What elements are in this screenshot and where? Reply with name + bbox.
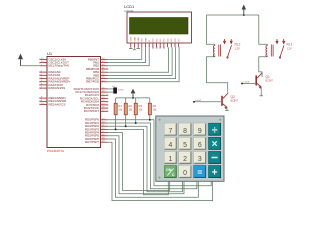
svg-text:VDD: VDD [134, 36, 136, 41]
wire 12V rail [207, 14, 259, 16]
svg-text:×: × [212, 139, 218, 150]
svg-text:7: 7 [168, 128, 172, 135]
svg-text:C: C [172, 173, 175, 177]
svg-text:Load2: Load2 [195, 100, 202, 102]
node pull-up rail junction [132, 97, 134, 99]
ground Q1 emitter [259, 95, 263, 97]
svg-text:RL2: RL2 [235, 43, 241, 47]
LCD pin names (vertical) [131, 36, 181, 41]
power symbol VCC (MCLR pull-up) [18, 54, 23, 66]
svg-text:4: 4 [168, 142, 172, 149]
wire pull-up bus [116, 97, 150, 99]
svg-text:VEE: VEE [138, 37, 140, 42]
crystal X1 [112, 86, 124, 93]
svg-text:0: 0 [183, 170, 187, 177]
wire RB4 to LCD D4 [108, 47, 169, 72]
key 9 [194, 123, 206, 135]
svg-text:6: 6 [198, 142, 202, 149]
resistor R4 [148, 98, 157, 120]
svg-text:+: + [212, 167, 218, 178]
U1 left pin stubs [40, 59, 47, 104]
svg-text:RD7/PSP7: RD7/PSP7 [85, 140, 99, 144]
svg-text:=: = [197, 167, 202, 177]
wire rail to RL1 coil top [259, 15, 268, 44]
svg-text:BC547: BC547 [231, 100, 239, 103]
resistor R1 [114, 98, 123, 129]
key 0 [179, 166, 191, 178]
key 5 [179, 137, 191, 149]
svg-text:U1: U1 [47, 51, 53, 56]
svg-text:R2: R2 [129, 104, 133, 108]
key multiply [209, 137, 221, 150]
svg-text:1: 1 [168, 156, 172, 163]
svg-text:3: 3 [198, 156, 202, 163]
wire RB0 to LCD RS [108, 47, 142, 59]
wire RL2 coil to Q2 collector [207, 57, 228, 92]
wire RD0 keypad column 1 [108, 120, 212, 186]
relay RL1 [266, 39, 285, 58]
microcontroller U1 PIC16F877A [47, 51, 101, 153]
U1 right unconnected pin crosses [107, 68, 108, 112]
svg-text:10k: 10k [118, 109, 123, 112]
key 6 [194, 137, 206, 149]
LCD unconnected data pin crosses D0-D3 [152, 47, 164, 48]
relay RL2 [213, 39, 232, 58]
svg-text:9: 9 [198, 128, 202, 135]
svg-text:R4: R4 [153, 104, 157, 108]
keypad bezel [156, 116, 224, 181]
wire Q2 base terminal [194, 101, 222, 103]
wire RD3 keypad column 4 [108, 129, 169, 194]
key equals [194, 166, 206, 178]
U1 right pin numbers [102, 58, 105, 143]
svg-text:12V: 12V [287, 47, 292, 51]
wire RD4 keypad row 1 [108, 133, 170, 191]
ground Q2 emitter [225, 110, 229, 112]
key ON/C [164, 166, 176, 178]
ground VSS [129, 47, 133, 48]
svg-text:R3: R3 [139, 104, 143, 108]
svg-text:R1: R1 [118, 104, 122, 108]
svg-text:10k: 10k [139, 109, 144, 112]
wire RD5 keypad row 2 [108, 136, 185, 194]
svg-text:RB7/PGD: RB7/PGD [86, 80, 99, 84]
LCD pin stubs [131, 43, 179, 47]
svg-text:RL1: RL1 [287, 43, 293, 47]
transistor Q1 BC547 [256, 73, 262, 96]
resistor R2 [124, 98, 133, 126]
LCD LCD1 LM016L [124, 4, 192, 43]
svg-text:÷: ÷ [212, 125, 218, 136]
wire RC0 to crystal [108, 88, 114, 90]
U1 left unconnected pin crosses [39, 59, 40, 106]
svg-text:Q1: Q1 [266, 75, 270, 79]
wire RB5 to LCD D5 [108, 47, 173, 75]
U1 right pin names [74, 57, 100, 144]
wire RL1 coil to Q1 collector [259, 57, 268, 77]
U1 right pin stubs [101, 59, 108, 142]
key 4 [164, 137, 176, 149]
svg-text:RS: RS [142, 38, 144, 42]
wire RB6 to LCD D6 [108, 47, 176, 78]
ground VEE [136, 47, 140, 48]
key 3 [194, 151, 206, 163]
key divide [209, 123, 221, 136]
wire MCLR pin to VCC arrow [21, 65, 41, 67]
key plus [209, 166, 221, 179]
svg-text:2: 2 [183, 156, 187, 163]
wire RD6 keypad row 3 [108, 139, 199, 197]
U1 left pin names [49, 57, 72, 106]
wire RB2 to LCD E [108, 47, 150, 66]
U1 left pin numbers [41, 58, 44, 105]
svg-text:RA5/AN4/SS: RA5/AN4/SS [49, 86, 66, 90]
wire Q1 base terminal [242, 83, 256, 85]
svg-text:Q2: Q2 [231, 95, 235, 99]
svg-text:RC7/RX/DT: RC7/RX/DT [84, 109, 99, 113]
svg-text:10k: 10k [129, 109, 134, 112]
svg-text:10k: 10k [153, 109, 158, 112]
key 7 [164, 123, 176, 135]
wire rail to RL2 coil top [207, 15, 215, 44]
power symbol 12V rail [242, 5, 247, 16]
key 8 [179, 123, 191, 135]
wire RD1 keypad column 2 [108, 123, 197, 189]
wire RD2 keypad column 3 [108, 126, 183, 192]
key 2 [179, 151, 191, 163]
node R4/RD0 junction [149, 119, 151, 121]
svg-text:5: 5 [183, 142, 187, 149]
svg-text:VSS: VSS [131, 37, 133, 42]
svg-text:8: 8 [183, 128, 187, 135]
svg-text:MCLR/Vpp/THV: MCLR/Vpp/THV [49, 64, 70, 68]
transistor Q2 BC547 [222, 92, 228, 111]
wire RB7 to LCD D7 [108, 47, 180, 82]
key minus [209, 151, 221, 163]
svg-text:PIC16F877A: PIC16F877A [47, 149, 64, 153]
node R3/RD1 junction [135, 122, 137, 124]
power symbol (keypad pull-up rail) [131, 89, 136, 98]
node R2/RD2 junction [125, 125, 127, 127]
svg-text:32kHz: 32kHz [118, 90, 124, 92]
svg-text:Load1: Load1 [244, 82, 251, 84]
wire RD7 keypad row 4 [108, 142, 213, 200]
resistor R3 [134, 98, 143, 123]
svg-text:BC547: BC547 [266, 80, 274, 83]
wire RB1 to LCD RW [108, 47, 146, 62]
node R1/RD3 junction [115, 128, 117, 130]
svg-text:RE2/AN7/CS: RE2/AN7/CS [49, 102, 66, 106]
wire RC1 to crystal [108, 91, 114, 93]
key 1 [164, 151, 176, 163]
power VDD [133, 47, 136, 50]
svg-text:12V: 12V [235, 47, 240, 51]
node 12V rail tap [243, 14, 245, 16]
